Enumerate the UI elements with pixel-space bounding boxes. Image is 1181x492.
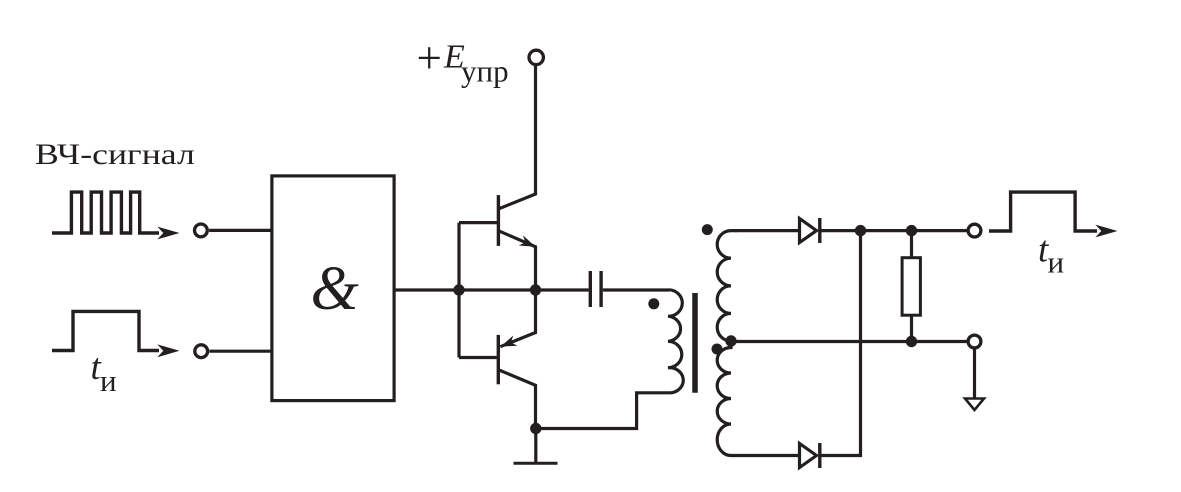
wire input 1 to AND gate [209,229,272,232]
transformer T1 primary winding [536,290,683,429]
RF pulse-train waveform [52,192,159,233]
wire secondary top to diode D1 [735,229,800,232]
pulse waveform t_и (input 2) [52,311,159,350]
node base junction [453,284,464,295]
arrow of input 2 waveform [157,344,179,357]
output terminal minus [968,335,981,348]
wire D2 link vertical [820,231,861,456]
AND gate U1 [272,176,394,401]
diode D1 [800,219,817,243]
transistor Q1 emitter lead [500,231,536,290]
wire input 2 to AND gate [209,350,272,353]
svg-text:и: и [100,363,117,398]
wire ground node to ground [534,429,537,464]
diode D2 [800,444,817,468]
node resistor bottom [906,336,917,347]
wire center tap rail [731,340,967,343]
arrow of output waveform [1095,225,1117,238]
node center tap [725,335,736,346]
arrow of RF waveform [157,227,179,240]
polarity dot secondary lower [712,344,723,355]
polarity dot primary [648,298,659,309]
wire node to capacitor [536,288,589,291]
wire terminal to output ground [973,350,976,399]
node ground junction [530,423,541,434]
polarity dot secondary upper [702,224,713,235]
wire base lead Q1 [459,221,498,224]
node D1 output [855,225,866,236]
transformer T1 secondary winding upper [717,231,737,341]
input terminal 2 [195,345,208,358]
wire D1 to output rail [820,229,967,232]
transistor Q1 collector lead [500,66,536,209]
transformer core [692,293,698,393]
svg-text:+: + [417,33,442,83]
input terminal 1 [195,224,208,237]
transistor Q2 collector lead [499,370,535,428]
wire secondary bottom to diode D2 [731,454,800,457]
wire AND output [394,288,535,291]
transistor Q2 emitter arrow [501,336,518,347]
svg-text:и: и [1048,244,1065,279]
svg-text:ВЧ-сигнал: ВЧ-сигнал [35,139,195,172]
ground (output, arrow style) [965,399,984,411]
transformer T1 secondary winding lower [717,341,731,456]
transistor Q1 emitter arrow [519,235,536,246]
transistor Q2 emitter lead [500,290,535,347]
svg-text:упр: упр [461,54,509,89]
supply terminal +Eупр [529,50,543,64]
transistor Q2 (PNP) base bar [497,335,500,384]
svg-text:&: & [311,255,359,323]
wire base lead Q2 [459,356,498,359]
output pulse waveform [989,192,1097,231]
wire capacitor to primary [603,288,669,291]
transistor Q1 (NPN) base bar [497,195,500,246]
resistor R1 [910,231,913,258]
wire base bus vertical [457,223,460,358]
node emitter output [530,284,541,295]
ground [514,462,558,465]
output terminal plus [968,224,981,237]
node resistor top [906,225,917,236]
capacitor C1 [589,271,592,307]
